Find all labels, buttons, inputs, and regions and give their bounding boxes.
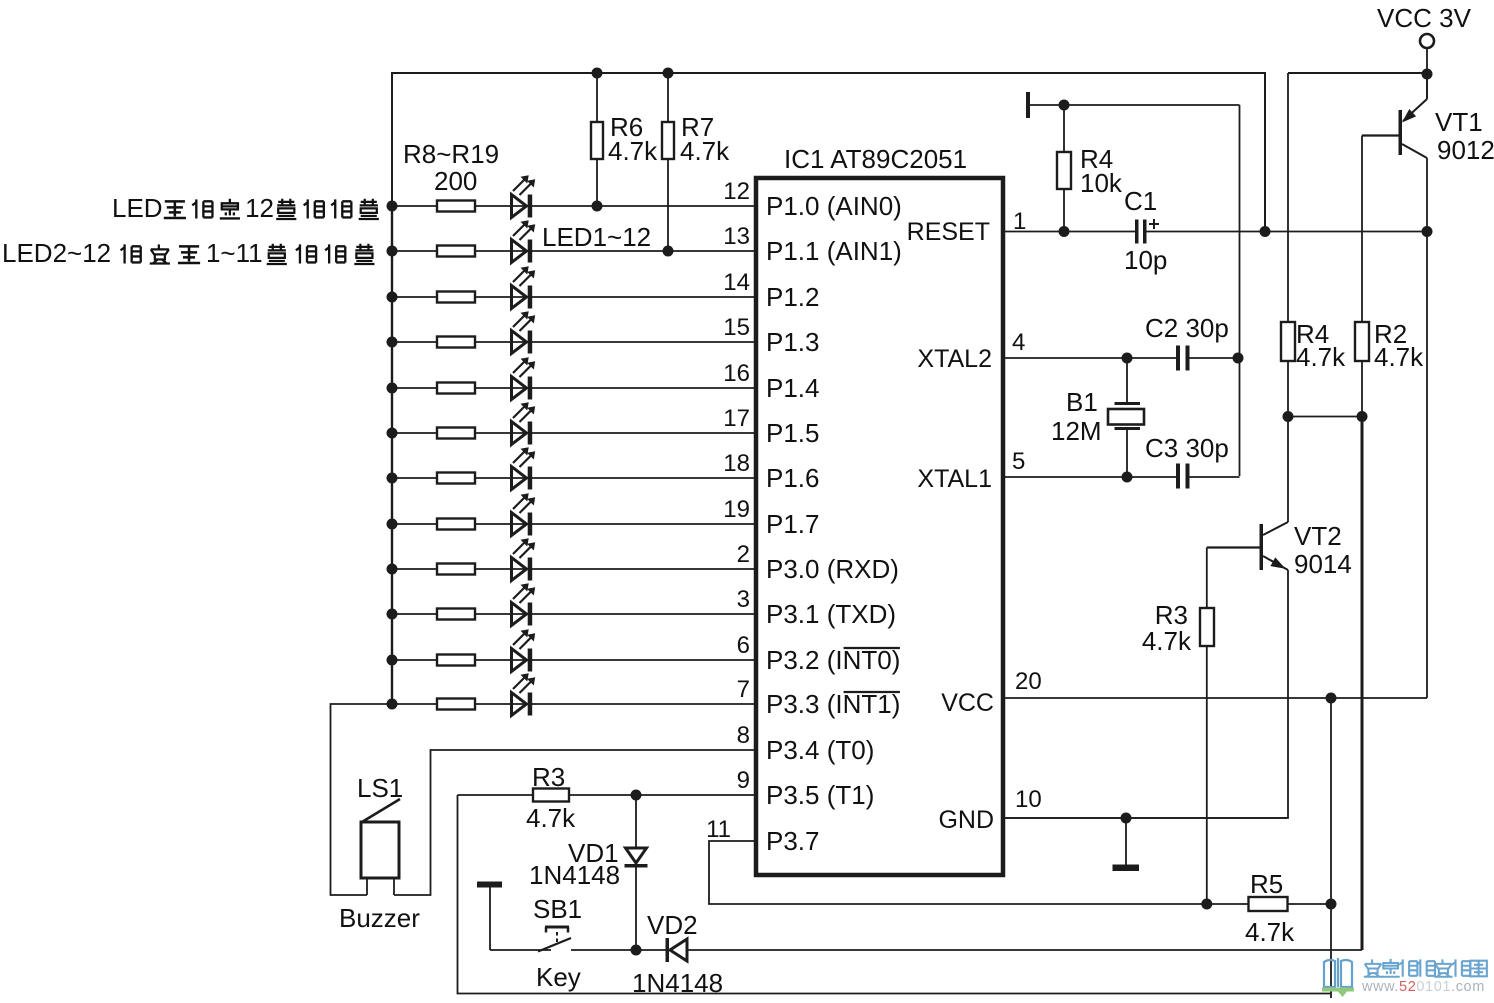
- svg-text:B1: B1: [1066, 387, 1098, 417]
- svg-text:11: 11: [706, 816, 731, 843]
- wire: LED common bus vertical: [391, 206, 393, 704]
- node: R5 left junction: [1201, 899, 1212, 910]
- LED9: [512, 558, 527, 581]
- svg-text:15: 15: [723, 314, 750, 341]
- wire: top-right rail from R2/R4 branch to VCC node: [1288, 72, 1427, 74]
- watermark book logo: [1324, 958, 1352, 987]
- node: XTAL2 crystal junction: [1122, 353, 1133, 364]
- node: R6 bottom junction on row 1: [592, 201, 603, 212]
- svg-text:P3.0 (RXD): P3.0 (RXD): [766, 554, 899, 584]
- svg-text:P1.0 (AIN0): P1.0 (AIN0): [766, 191, 902, 221]
- node: R4b bottom: [1283, 411, 1294, 422]
- svg-text:VT1: VT1: [1435, 107, 1483, 137]
- wire: x=1427 VCC rail corner: [1426, 232, 1428, 699]
- node: bus junction row 8: [387, 519, 398, 530]
- svg-text:1N4148: 1N4148: [529, 860, 620, 890]
- ground symbol: [1125, 818, 1127, 865]
- node: XTAL1 crystal junction: [1122, 472, 1133, 483]
- pin 20 wire (VCC): [1003, 697, 1427, 699]
- svg-text:R5: R5: [1250, 869, 1283, 899]
- svg-text:4.7k: 4.7k: [1374, 342, 1424, 372]
- watermark site name (Chinese): [1364, 959, 1382, 976]
- pin 10 wire (GND): [1003, 817, 1287, 819]
- svg-text:VCC: VCC: [941, 689, 994, 717]
- node: bus junction row 12: [387, 699, 398, 710]
- crystal B1 12M: [1126, 358, 1128, 403]
- LED8: [512, 513, 527, 536]
- svg-text:LED2~12: LED2~12: [2, 238, 111, 268]
- svg-text:C1: C1: [1124, 186, 1157, 216]
- svg-text:P1.7: P1.7: [766, 509, 820, 539]
- LED7: [512, 467, 527, 490]
- node: RESET/top-rail junction at x=1265: [1260, 226, 1271, 237]
- resistor R11 200: [437, 337, 475, 348]
- svg-text:XTAL1: XTAL1: [917, 465, 992, 493]
- resistor R2 4.7k: [1355, 322, 1369, 361]
- svg-text:SB1: SB1: [533, 894, 582, 924]
- svg-text:10p: 10p: [1124, 245, 1167, 275]
- wire: vertical x=1288 branch (R4 4.7k / VT2): [1287, 73, 1289, 522]
- node: VT1 collector to RESET: [1422, 226, 1433, 237]
- svg-text:4.7k: 4.7k: [526, 803, 576, 833]
- svg-text:9012: 9012: [1437, 135, 1494, 165]
- svg-text:4.7k: 4.7k: [608, 136, 658, 166]
- wire row 7 (pin 18): [392, 477, 756, 479]
- diode VD2 1N4148: [666, 938, 670, 962]
- wire row 2 (pin 13): [392, 250, 756, 252]
- resistor R9 200: [437, 246, 475, 257]
- svg-text:C3 30p: C3 30p: [1145, 433, 1229, 463]
- svg-text:Key: Key: [536, 962, 581, 992]
- key SB1 contact bar: [477, 882, 502, 888]
- LED11: [512, 649, 527, 672]
- svg-text:5: 5: [1012, 448, 1025, 475]
- wire row 1 (pin 12): [392, 205, 756, 207]
- svg-text:8: 8: [737, 722, 750, 749]
- svg-text:13: 13: [723, 223, 750, 250]
- svg-text:LED1~12: LED1~12: [542, 222, 651, 252]
- LED4: [512, 331, 527, 354]
- svg-text:RESET: RESET: [907, 218, 990, 246]
- resistor R5 4.7k: [1207, 903, 1249, 905]
- wire row 8 (pin 19): [392, 523, 756, 525]
- svg-text:2: 2: [737, 541, 750, 568]
- svg-text:P3.5 (T1): P3.5 (T1): [766, 780, 874, 810]
- buzzer LS1: [361, 822, 399, 878]
- pin 1 wire (RESET): [1003, 231, 1427, 233]
- node: bus junction row 2: [387, 246, 398, 257]
- svg-text:20: 20: [1015, 668, 1042, 695]
- node: R4 bottom junction on RESET: [1059, 226, 1070, 237]
- transistor VT1 9012 (PNP): [1399, 110, 1403, 155]
- LED5: [512, 377, 527, 400]
- svg-text:12M: 12M: [1051, 416, 1102, 446]
- node: bus junction row 4: [387, 337, 398, 348]
- svg-text:VD2: VD2: [647, 910, 698, 940]
- svg-text:P1.4: P1.4: [766, 373, 820, 403]
- svg-text:P3.2 (INT0): P3.2 (INT0): [766, 645, 900, 675]
- wire: buzzer left to LED bus bottom: [331, 704, 393, 895]
- wire row 9 (pin 2): [392, 568, 756, 570]
- svg-text:6: 6: [737, 632, 750, 659]
- LED2: [512, 240, 527, 263]
- resistor R19 200: [437, 699, 475, 710]
- wire: vertical x=1362 (VT1 base / R2): [1361, 136, 1363, 417]
- svg-text:GND: GND: [938, 806, 994, 834]
- node: R5 right junction: [1326, 899, 1337, 910]
- svg-text:XTAL2: XTAL2: [917, 345, 992, 373]
- svg-text:9: 9: [737, 767, 750, 794]
- resistor R16 200: [437, 564, 475, 575]
- resistor R4b 4.7k: [1281, 322, 1295, 361]
- IC U1 AT89C2051 box: [756, 178, 1003, 875]
- wire row 10 (pin 3): [392, 613, 756, 615]
- svg-text:R3: R3: [532, 762, 565, 792]
- svg-text:4.7k: 4.7k: [680, 136, 730, 166]
- node: bus junction row 5: [387, 383, 398, 394]
- wire: R2 bottom thick rail down to key line: [1361, 417, 1364, 951]
- pin 4 wire (XTAL2): [1003, 357, 1238, 359]
- wire: VT2 emitter down to GND rail corner: [1004, 570, 1288, 818]
- pin 5 wire (XTAL1): [1003, 476, 1240, 478]
- svg-text:LS1: LS1: [357, 773, 403, 803]
- resistor R12 200: [437, 383, 475, 394]
- node: GND pin junction: [1121, 813, 1132, 824]
- node: R2 bottom: [1357, 411, 1368, 422]
- svg-text:3: 3: [737, 586, 750, 613]
- svg-text:IC1 AT89C2051: IC1 AT89C2051: [784, 144, 967, 174]
- node: bus junction row 9: [387, 564, 398, 575]
- resistor R3b 4.7k (VT2 base): [1206, 548, 1208, 905]
- wire: pin 9 line with R3 to left vertical: [458, 794, 534, 796]
- node: VD1 bottom junction: [631, 945, 642, 956]
- svg-text:www.520101.com: www.520101.com: [1361, 979, 1485, 995]
- wire row 12 (pin 7): [392, 703, 756, 705]
- svg-text:10k: 10k: [1080, 168, 1123, 198]
- resistor R13 200: [437, 428, 475, 439]
- svg-text:VCC 3V: VCC 3V: [1377, 3, 1472, 33]
- LED6: [512, 422, 527, 445]
- node: bus junction row 6: [387, 428, 398, 439]
- svg-text:4.7k: 4.7k: [1142, 626, 1192, 656]
- svg-text:19: 19: [723, 496, 750, 523]
- reset-cap top rail with contact bar: [1026, 92, 1030, 118]
- resistor R15 200: [437, 519, 475, 530]
- svg-text:12: 12: [723, 178, 750, 205]
- capacitor C1 10p (polarized): [1135, 220, 1139, 244]
- LED1: [512, 195, 527, 218]
- wire: pin 11 route under IC to R5 left: [709, 841, 1207, 904]
- svg-text:P3.3 (INT1): P3.3 (INT1): [766, 689, 900, 719]
- node: R4 top junction: [1059, 100, 1070, 111]
- wire: left vertical x=457 to bottom rail: [458, 795, 1332, 994]
- wire: top supply line from LED bus to vertical at x=1265: [392, 73, 1265, 232]
- svg-text:VT2: VT2: [1294, 521, 1342, 551]
- wire row 3 (pin 14): [392, 296, 756, 298]
- resistor R4 10k: [1063, 105, 1065, 232]
- wire row 11 (pin 6): [392, 659, 756, 661]
- node: R6 top junction: [592, 68, 603, 79]
- node: VD1 top junction: [631, 790, 642, 801]
- svg-text:14: 14: [723, 269, 750, 296]
- node: VCC junction: [1422, 69, 1433, 80]
- resistor R17 200: [437, 609, 475, 620]
- svg-text:P3.4 (T0): P3.4 (T0): [766, 735, 874, 765]
- svg-text:P1.1 (AIN1): P1.1 (AIN1): [766, 236, 902, 266]
- svg-text:P1.2: P1.2: [766, 282, 820, 312]
- svg-text:12: 12: [245, 193, 274, 223]
- node: C2 right junction: [1233, 353, 1244, 364]
- LED3: [512, 286, 527, 309]
- wire row 6 (pin 17): [392, 432, 756, 434]
- resistor R3 4.7k: [533, 789, 569, 802]
- svg-text:1: 1: [1013, 208, 1026, 235]
- svg-text:LED: LED: [112, 193, 163, 223]
- svg-text:7: 7: [737, 676, 750, 703]
- svg-text:Buzzer: Buzzer: [339, 903, 420, 933]
- svg-text:P1.3: P1.3: [766, 327, 820, 357]
- svg-text:10: 10: [1015, 786, 1042, 813]
- node: bus junction row 3: [387, 292, 398, 303]
- svg-text:4.7k: 4.7k: [1296, 342, 1346, 372]
- resistor R8 200: [437, 201, 475, 212]
- diode VD1 1N4148: [635, 795, 637, 848]
- wire: vertical x=1239 (cap rail to crystal caps): [1239, 105, 1241, 476]
- wire: pin 8 route to buzzer: [394, 750, 756, 895]
- svg-text:P3.7: P3.7: [766, 826, 820, 856]
- resistor R7 4.7k: [667, 73, 669, 251]
- capacitor C3 30p: [1176, 464, 1180, 489]
- capacitor C2 30p: [1176, 346, 1180, 371]
- svg-text:9014: 9014: [1294, 549, 1352, 579]
- svg-text:1N4148: 1N4148: [632, 968, 723, 998]
- LED12: [512, 693, 527, 716]
- transistor VT2 9014 (NPN): [1260, 524, 1264, 570]
- svg-text:C2 30p: C2 30p: [1145, 313, 1229, 343]
- svg-text:4.7k: 4.7k: [1245, 917, 1295, 947]
- wire row 5 (pin 16): [392, 387, 756, 389]
- svg-text:16: 16: [723, 360, 750, 387]
- svg-text:200: 200: [434, 166, 477, 196]
- svg-text:P1.6: P1.6: [766, 463, 820, 493]
- svg-text:4: 4: [1012, 329, 1025, 356]
- wire: R5 right down to bottom rail: [1330, 904, 1332, 998]
- node: bus junction row 10: [387, 609, 398, 620]
- node: bus junction row 11: [387, 655, 398, 666]
- svg-text:P1.5: P1.5: [766, 418, 820, 448]
- wire: x=1331 down to R5 right: [1330, 698, 1332, 904]
- key SB1 switch: [490, 949, 551, 951]
- LED10: [512, 603, 527, 626]
- wire row 4 (pin 15): [392, 341, 756, 343]
- svg-text:18: 18: [723, 450, 750, 477]
- resistor R10 200: [437, 292, 475, 303]
- resistor R6 4.7k: [596, 73, 598, 206]
- node: R7 bottom junction on row 2: [663, 246, 674, 257]
- svg-text:17: 17: [723, 405, 750, 432]
- resistor R18 200: [437, 655, 475, 666]
- node: bus junction row 1: [387, 201, 398, 212]
- node: VCC rail junction x=1331: [1326, 693, 1337, 704]
- node: bus junction row 7: [387, 473, 398, 484]
- svg-text:P3.1 (TXD): P3.1 (TXD): [766, 599, 896, 629]
- wire: link between R4b and R2 bottoms: [1288, 416, 1362, 418]
- resistor R14 200: [437, 473, 475, 484]
- svg-text:R8~R19: R8~R19: [403, 139, 499, 169]
- node: R7 top junction: [663, 68, 674, 79]
- svg-text:1~11: 1~11: [206, 238, 263, 268]
